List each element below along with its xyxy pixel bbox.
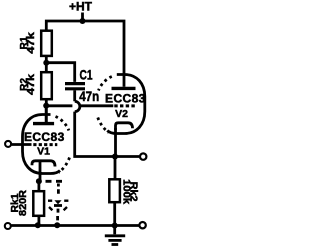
LED optional dashed: [48, 200, 68, 210]
svg-text:Rk1820R: Rk1820R: [9, 190, 29, 216]
resistor Rk2: [109, 179, 120, 202]
wire cathode junction to Rk1: [38, 181, 41, 191]
wire LED branch dashed horizontal: [46, 181, 63, 193]
wire input to grid: [12, 143, 32, 146]
node R1/R2 junction dot: [43, 60, 49, 66]
wire V1 anode lead: [45, 106, 48, 122]
wire junction to Rk2: [114, 157, 117, 180]
wire R2 to V1 anode: [45, 100, 48, 123]
wire Rk2 to rail: [113, 202, 116, 225]
wire HT stub: [81, 13, 84, 22]
resistor R2: [41, 72, 52, 99]
tube V2 envelope solid: [107, 75, 145, 134]
node output junction dot: [112, 154, 118, 160]
svg-text:V2: V2: [115, 108, 128, 120]
tube V1 envelope dashed bottom-right: [59, 158, 70, 173]
tube V1 envelope dashed top-right: [56, 117, 69, 131]
capacitor C1: [65, 84, 85, 89]
wire V2 cathode lead: [114, 128, 117, 157]
wire C1 down with hop: [75, 90, 140, 156]
wire hop over: [75, 101, 80, 111]
node Rk1 rail dot: [35, 222, 41, 228]
wire top rail: [46, 21, 124, 87]
node LED rail dot: [54, 222, 60, 228]
svg-text:+HT: +HT: [69, 0, 93, 13]
terminal output circle: [140, 153, 146, 159]
terminal bottom-right circle: [139, 222, 145, 228]
junction HT dot: [80, 18, 86, 24]
resistor R1: [41, 31, 52, 56]
svg-text:ECC83: ECC83: [105, 92, 146, 106]
resistor Rk1: [33, 191, 44, 216]
terminal bottom-left circle: [5, 223, 11, 229]
tube V1 cathode: [32, 161, 55, 167]
tube V2 anode: [112, 87, 136, 90]
tube V2 grid dashed: [114, 104, 135, 107]
svg-text:Rk2100k: Rk2100k: [120, 179, 139, 204]
ground: [105, 226, 125, 245]
tube V1 grid dashed: [33, 143, 57, 146]
svg-text:ECC83: ECC83: [24, 130, 65, 144]
wire LED branch dashed vertical: [56, 209, 59, 221]
wire junction to C1: [46, 63, 74, 82]
node anode junction dot: [43, 103, 49, 109]
wire R1 to R2: [45, 57, 48, 72]
tube V2 cathode: [116, 123, 133, 130]
wire V1 cathode lead: [39, 162, 42, 181]
wire bottom rail: [12, 224, 140, 227]
tube V2 envelope dashed top-left: [99, 77, 112, 91]
svg-text:V1: V1: [37, 146, 50, 158]
svg-text:C1: C1: [80, 66, 93, 82]
wire anode to V2 grid: [46, 104, 113, 107]
node cathode junction dot: [36, 178, 42, 184]
tube V1 anode: [33, 122, 54, 125]
tube V2 envelope dashed bottom-left: [98, 118, 109, 133]
svg-text:47n: 47n: [79, 88, 99, 104]
node ground rail dot: [112, 223, 118, 229]
tube V1 envelope solid: [23, 115, 61, 174]
terminal input circle: [5, 141, 11, 147]
wire Rk1 to rail: [38, 216, 41, 226]
